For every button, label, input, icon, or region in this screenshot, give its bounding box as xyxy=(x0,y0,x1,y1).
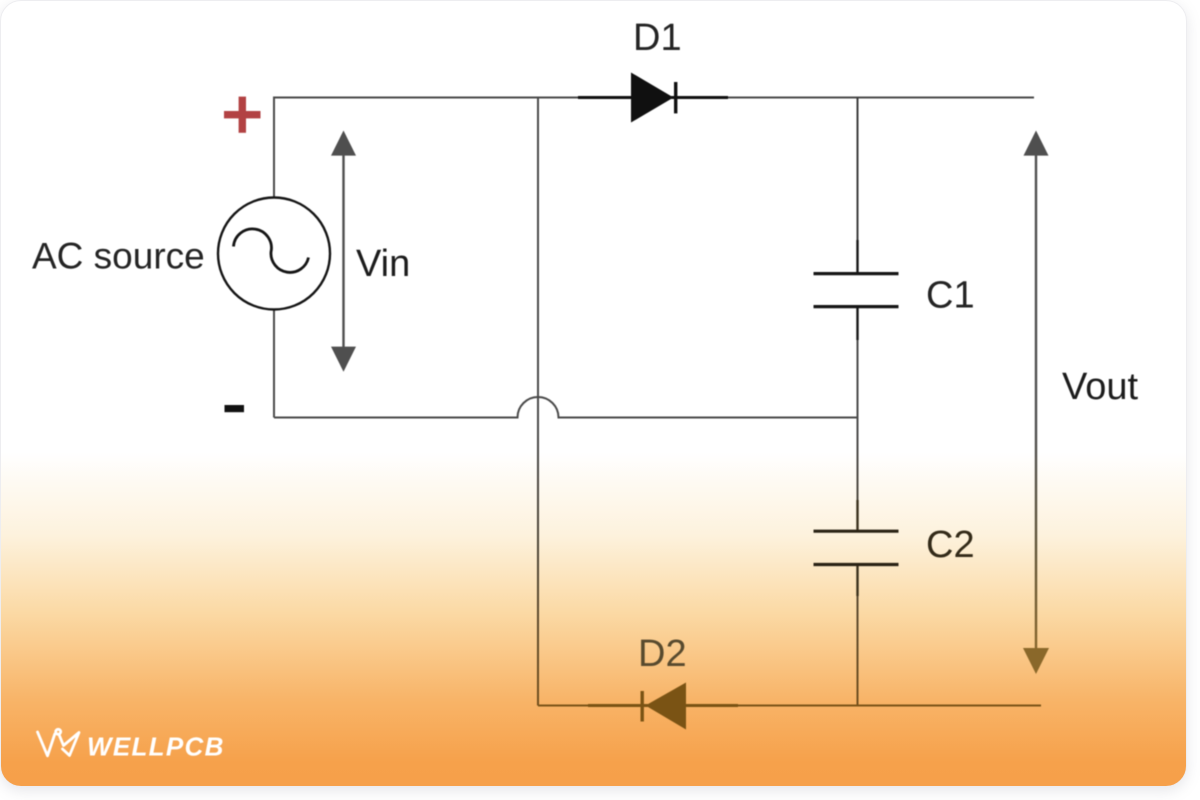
AC source circle xyxy=(218,198,330,310)
svg-text:WELLPCB: WELLPCB xyxy=(87,732,225,762)
wire: right vertical below C2 to bottom rail xyxy=(857,565,859,706)
wire: left vertical lower (AC source bottom to minus corner) xyxy=(273,310,275,418)
C1 leads xyxy=(856,240,858,340)
wire: bottom Vin rail with hop over vertical wire xyxy=(274,397,858,418)
svg-text:AC source: AC source xyxy=(32,236,205,277)
svg-text:Vout: Vout xyxy=(1062,366,1139,408)
minus terminal xyxy=(225,405,245,412)
diode D2 xyxy=(588,683,738,730)
svg-text:C2: C2 xyxy=(926,524,975,566)
wire: middle vertical from top rail down to bottom rail xyxy=(537,98,539,706)
wire: right vertical between C1 and C2 xyxy=(857,307,859,531)
Vin measurement arrow xyxy=(331,131,356,372)
svg-text:Vin: Vin xyxy=(356,243,410,285)
capacitor C1 xyxy=(814,274,899,307)
wire: left vertical upper (corner to AC source top) xyxy=(273,97,275,198)
plus terminal xyxy=(224,97,261,133)
AC source sine wave xyxy=(234,229,309,273)
svg-text:D1: D1 xyxy=(633,17,682,59)
wire: bottom rail (D2 rail) xyxy=(538,705,1041,707)
Vout measurement arrow xyxy=(1023,131,1049,675)
svg-text:C1: C1 xyxy=(926,275,975,317)
wire: top rail from + corner to right end xyxy=(274,97,1034,99)
C2 leads xyxy=(856,500,858,596)
diode D1 xyxy=(578,73,728,123)
svg-text:D2: D2 xyxy=(638,633,687,675)
wire: right vertical upper (top rail to C1) xyxy=(857,98,859,274)
WELLPCB logo mark xyxy=(38,729,80,756)
capacitor C2 xyxy=(814,531,899,564)
